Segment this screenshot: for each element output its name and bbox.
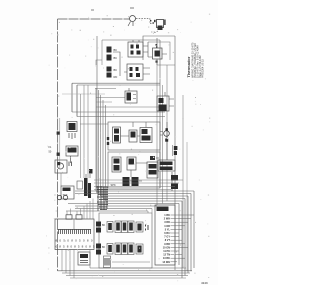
- label SM: [150, 156, 155, 160]
- relay board box: [99, 213, 152, 268]
- relay R8: [107, 244, 113, 255]
- TB1 header: [157, 207, 169, 212]
- wire y102: [96, 101, 112, 103]
- relay R3: [115, 221, 134, 233]
- wire left boundary: [57, 19, 59, 271]
- solenoid E: [125, 88, 137, 103]
- wire bundle riser x103: [102, 100, 104, 199]
- connector J4: [158, 160, 175, 171]
- relay R10: [136, 244, 143, 254]
- wire V3 drop: [131, 163, 147, 177]
- title block: [186, 42, 205, 78]
- wire y112: [72, 111, 165, 113]
- wire risers to door lock: [81, 85, 89, 178]
- wire wavy pair: [58, 118, 60, 168]
- svg-text:BK: BK: [102, 246, 106, 249]
- svg-text:14 WH: 14 WH: [162, 261, 170, 264]
- oven light B1: [128, 8, 136, 26]
- lamp assembly left: [55, 160, 72, 173]
- ticks box3 edge: [107, 137, 109, 140]
- wire L1 top feed: [58, 18, 130, 20]
- box upper center top edge: [102, 39, 160, 41]
- coil pair CP2: [96, 244, 106, 255]
- svg-text:4 OR: 4 OR: [164, 225, 170, 228]
- wire bundle riser x100: [100, 95, 102, 196]
- TB1 labels: [162, 214, 170, 264]
- node corner (96,60): [96, 60, 102, 65]
- wire divider: [73, 219, 75, 229]
- TB1 stub wires: [171, 215, 195, 262]
- box broil module: [108, 152, 160, 188]
- wire bottom bus y278: [70, 277, 186, 279]
- svg-text:RD: RD: [114, 75, 118, 79]
- relay coil A1: [107, 47, 118, 61]
- svg-text:11 PK: 11 PK: [163, 250, 170, 253]
- control box left: [55, 219, 94, 250]
- svg-text:10 GN: 10 GN: [163, 246, 170, 249]
- wire A1 to B2: [113, 52, 120, 76]
- valve V1: [129, 130, 137, 142]
- wire bottom bus y273: [62, 272, 190, 274]
- wire box left edge x102: [101, 40, 103, 65]
- valve V3: [127, 157, 136, 170]
- wire double row y83: [72, 83, 160, 85]
- relay R9: [115, 243, 134, 255]
- wire drop x72: [71, 83, 73, 112]
- burner cluster: [111, 177, 143, 187]
- junction dots on pair: [57, 132, 60, 135]
- wire right riser x175: [174, 36, 176, 270]
- thermal fuse box: [66, 146, 78, 163]
- box upper right inner: [148, 42, 170, 60]
- jumper block J1: [66, 215, 72, 219]
- svg-text:9 BR: 9 BR: [164, 243, 170, 246]
- svg-text:Thermador: Thermador: [186, 56, 191, 77]
- door lock connector: [77, 169, 93, 198]
- igniter block 2: [112, 157, 121, 172]
- jumper block J2: [76, 215, 82, 219]
- wire fan from connector: [94, 180, 183, 190]
- wire bus y193: [75, 193, 191, 195]
- node dot L1: [91, 9, 94, 11]
- scan speckle noise: [46, 14, 210, 282]
- wire right riser x157: [156, 60, 158, 205]
- connector pin row P2: [58, 230, 91, 235]
- svg-text:8 VT: 8 VT: [165, 239, 171, 242]
- svg-text:PRSG304 US 15: PRSG304 US 15: [202, 58, 205, 78]
- wire right riser x167: [166, 65, 168, 201]
- wire bottom bus y275: [66, 275, 188, 277]
- svg-text:13 BK: 13 BK: [163, 257, 170, 260]
- wire box right edge x160: [159, 40, 161, 188]
- wire y262: [112, 261, 150, 263]
- wire y124: [80, 123, 108, 125]
- wire right riser x187: [186, 142, 188, 271]
- wire y97: [96, 97, 125, 99]
- wire bus y206: [75, 205, 157, 207]
- wire nest bottom: [157, 64, 175, 66]
- transformer T1: [78, 252, 90, 265]
- wire bundle riser x105: [105, 105, 107, 201]
- svg-text:5 YL: 5 YL: [165, 228, 171, 231]
- relay K1: [148, 38, 167, 65]
- wire stubs into control box: [67, 199, 93, 220]
- relay B2 contacts: [124, 64, 150, 80]
- wire bus y191: [75, 190, 194, 192]
- switch S5: [173, 145, 178, 156]
- wire bundle riser x98: [98, 90, 100, 194]
- svg-text:BK: BK: [114, 56, 118, 60]
- svg-text:8050805080: 8050805080: [56, 239, 93, 243]
- wire bus y203: [68, 203, 179, 205]
- wire bottom bus y270: [58, 270, 193, 272]
- svg-text:4349: 4349: [201, 281, 208, 285]
- wire dashed to plug: [136, 19, 153, 24]
- latch assembly cluster: [157, 92, 174, 111]
- wire bus y211: [66, 210, 148, 212]
- wire bus y198: [103, 198, 185, 200]
- coil pair CP1: [96, 222, 106, 233]
- wire drop x152 x148: [148, 209, 152, 214]
- wire drops from control box: [62, 249, 90, 278]
- spark module SM: [147, 162, 158, 178]
- thermostat block: [57, 186, 74, 200]
- wire bus y201: [106, 200, 183, 202]
- hinge switch SH: [171, 172, 178, 191]
- plug P1: [150, 20, 166, 34]
- motor M1: [160, 122, 169, 160]
- fuse block F2: [104, 256, 111, 268]
- wire y116: [77, 116, 165, 118]
- svg-text:BK: BK: [114, 68, 118, 72]
- wire valve links: [121, 122, 147, 136]
- svg-text:3 RD: 3 RD: [164, 221, 170, 224]
- svg-text:1 BK: 1 BK: [164, 214, 170, 217]
- relay R2: [107, 222, 113, 233]
- wire bottom bus y268: [90, 267, 186, 269]
- relay coil A2: [107, 67, 118, 80]
- svg-text:7 GY: 7 GY: [164, 236, 170, 239]
- svg-text:BK: BK: [114, 48, 118, 52]
- wire bus y208: [75, 208, 152, 210]
- wire box left edge x97: [96, 36, 98, 191]
- wire faint y94: [62, 93, 105, 95]
- terminal board TB1: [155, 205, 175, 265]
- box bake module: [108, 122, 160, 150]
- wire right riser x162: [162, 85, 164, 204]
- svg-text:6 BU: 6 BU: [164, 232, 170, 235]
- box upper right outer: [143, 36, 175, 60]
- wire y107: [96, 106, 160, 108]
- wire drop x77: [76, 85, 78, 117]
- svg-text:2 WH: 2 WH: [164, 218, 170, 221]
- oven sensor cluster: [67, 122, 77, 140]
- igniter block: [113, 127, 121, 143]
- wire y88: [95, 88, 116, 90]
- wire right riser x183: [182, 95, 184, 268]
- wire lamp to thermostat: [60, 173, 62, 186]
- wire bundle riser x96: [95, 88, 97, 191]
- wire bus y196: [101, 195, 189, 197]
- tick marks R5: [146, 225, 149, 231]
- relay R4: [136, 222, 143, 232]
- svg-text:BK: BK: [102, 224, 106, 227]
- svg-text:12 TN: 12 TN: [163, 254, 170, 257]
- relay B1 contacts: [128, 40, 148, 57]
- valve V2: [140, 128, 152, 143]
- wire staircase verticals right: [179, 191, 194, 278]
- junction cluster: [96, 186, 108, 211]
